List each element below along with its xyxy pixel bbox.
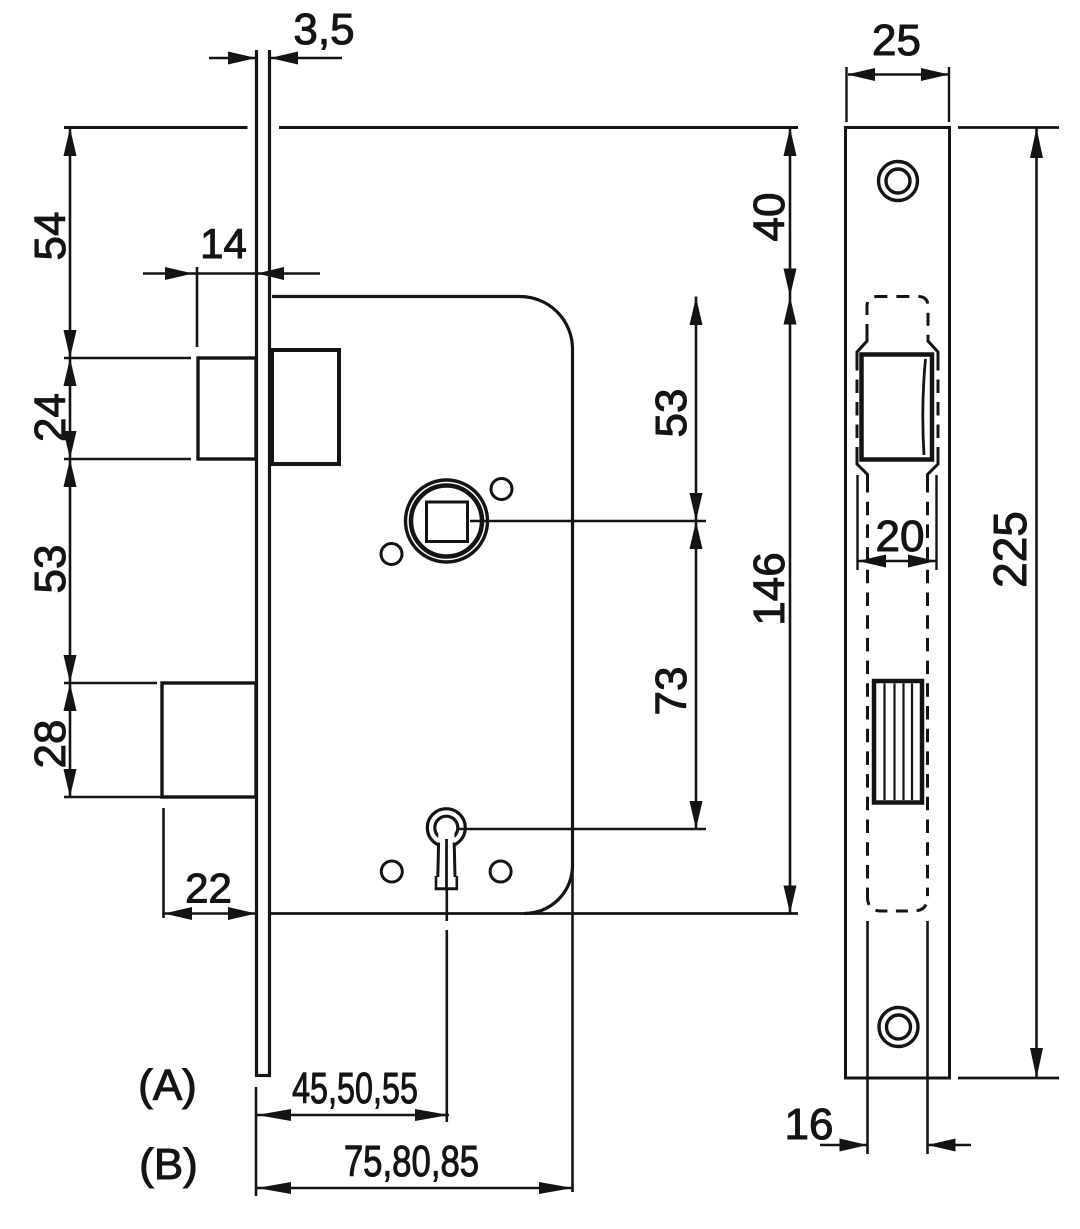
dimension (A) 45,50,55 — [255, 1087, 258, 1196]
dimension 16 — [820, 1144, 867, 1147]
latch bolt rectangle left of plate — [198, 358, 256, 459]
keyhole centre line down to (A) dimension — [445, 888, 448, 921]
svg-text:24: 24 — [26, 393, 75, 442]
svg-text:146: 146 — [745, 552, 794, 625]
dimension label 40 — [745, 193, 794, 242]
svg-text:75,80,85: 75,80,85 — [344, 1137, 479, 1186]
arrows left chain — [64, 128, 77, 156]
svg-text:73: 73 — [647, 667, 696, 716]
extension lines on the left — [64, 357, 191, 360]
svg-text:20: 20 — [876, 512, 925, 561]
bottom screw hole — [879, 1008, 918, 1047]
top screw hole — [879, 162, 918, 201]
dimension label 146 — [745, 552, 794, 625]
svg-text:40: 40 — [745, 193, 794, 242]
latch bolt side view — [862, 355, 933, 460]
dimension (B) 75,80,85 — [256, 1187, 573, 1190]
svg-text:25: 25 — [872, 16, 921, 65]
dimension 14 — [196, 267, 199, 347]
svg-text:54: 54 — [26, 212, 75, 261]
svg-text:225: 225 — [984, 511, 1036, 588]
spindle hub — [406, 480, 488, 562]
dimension label 73 — [647, 667, 696, 716]
deadbolt rectangle left of plate — [162, 683, 256, 797]
svg-text:(B): (B) — [139, 1140, 198, 1189]
dimension label 54 — [26, 212, 75, 261]
left dimension chain line x=70 — [69, 128, 72, 798]
faceplate side view outline — [846, 128, 950, 1079]
svg-text:22: 22 — [185, 865, 232, 912]
body right edge extension down to (B) — [571, 866, 574, 1193]
case width extension lines through plate bottom — [866, 921, 869, 1154]
faceplate front view (vertical strip) — [255, 50, 258, 1076]
dimension label 53 (right) — [647, 389, 696, 438]
centre extension lines to middle dimension chain — [470, 520, 706, 522]
dimension 25 — [845, 67, 847, 122]
dimension 225 — [958, 126, 1059, 129]
svg-text:3,5: 3,5 — [293, 5, 354, 54]
svg-text:53: 53 — [647, 389, 696, 438]
lock body outline — [272, 297, 573, 914]
hidden lock case outline (dashed) — [857, 297, 938, 912]
latch bolt head right of plate — [272, 350, 339, 464]
bottom line of body / 146 extension — [270, 912, 798, 915]
middle dimension line x=696 (53 / 73) — [695, 297, 698, 830]
small screw holes near keyhole — [381, 861, 402, 882]
dimension 22 — [162, 808, 165, 918]
svg-text:14: 14 — [200, 220, 247, 267]
dimension label 24 — [26, 393, 75, 442]
svg-text:45,50,55: 45,50,55 — [292, 1064, 418, 1113]
top outline line of lock, y=127.5 — [64, 126, 248, 129]
svg-text:53: 53 — [26, 545, 75, 594]
svg-text:28: 28 — [26, 720, 75, 769]
dimension label 53 — [26, 545, 75, 594]
right dimension line x=790 (40 / 146) — [789, 128, 792, 914]
keyhole — [427, 809, 465, 847]
dimension 3,5 (faceplate thickness) — [209, 57, 256, 60]
svg-text:16: 16 — [785, 1100, 834, 1149]
deadbolt side view with hatch lines — [874, 681, 922, 803]
dimension 20 — [856, 475, 858, 570]
small screw holes around hub — [491, 479, 512, 500]
dimension label 28 — [26, 720, 75, 769]
svg-text:(A): (A) — [138, 1061, 197, 1110]
